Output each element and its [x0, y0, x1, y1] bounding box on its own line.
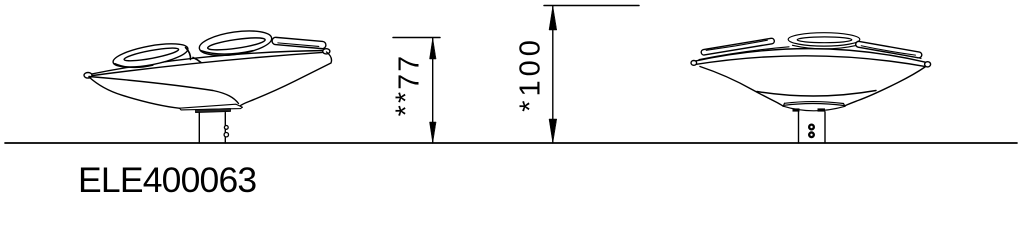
right view: bowl right silhouette [845, 67, 925, 106]
dimension *100 extension line [544, 5, 639, 7]
left view: dish rim band [89, 51, 326, 77]
part number label ELE400063 [78, 160, 256, 201]
left view: rim left tip knob [84, 73, 92, 79]
left view: cone near-side edge [89, 77, 239, 104]
left view: pole hole lower [224, 133, 228, 137]
left view: bottom disc edge [180, 104, 243, 110]
right view: pole hole upper [809, 125, 814, 130]
right view: flange tab right [818, 108, 826, 111]
dimension *100 line with arrowheads [549, 6, 557, 143]
dimension text *100 [515, 36, 548, 112]
right view: rim left cap [691, 61, 697, 66]
left view: right seat blade [272, 37, 326, 49]
left view: pole [199, 113, 225, 144]
right view: flange tab left [793, 108, 800, 111]
right view: rim right cap [925, 62, 931, 67]
right view: pole hole lower [809, 132, 814, 137]
left view: pole hole upper [224, 126, 228, 130]
left view: mount flange bar [196, 109, 231, 113]
dimension text **77 [394, 53, 427, 116]
left view: middle ring seat [198, 27, 273, 60]
right view: bowl left silhouette [700, 67, 783, 107]
right view: top disc far edge right arc [860, 47, 921, 59]
right view: top disc far edge left arc [699, 47, 789, 60]
dimension **77 extension line [393, 37, 440, 39]
left view: rim right tip knob [323, 49, 330, 54]
dimension **77 line with arrowheads [430, 38, 436, 143]
right view: bowl bottom far edge arc [757, 91, 876, 97]
left view: left ring seat [111, 39, 189, 72]
right view: pole [799, 112, 826, 143]
right view: right seat bar [855, 41, 922, 58]
left view: cone left silhouette [89, 77, 180, 108]
right view: dish rim band [695, 49, 927, 67]
ground line [5, 142, 1017, 144]
right view: hub flange [783, 102, 845, 111]
right view: centre ring seat [788, 33, 860, 49]
right view: left seat bar [701, 38, 775, 56]
left view: ring junction marks [186, 48, 202, 63]
left view: cone right silhouette [240, 52, 332, 106]
